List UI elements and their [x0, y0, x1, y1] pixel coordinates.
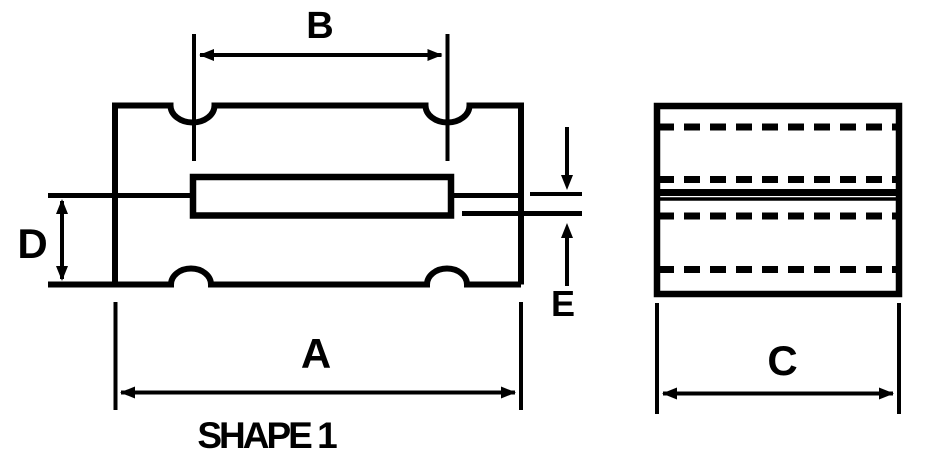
side view dashed line 1 — [658, 124, 896, 131]
side view parting line lower — [660, 197, 896, 201]
dimension A extension line left — [114, 302, 118, 410]
right lower lead wire (also E lower tick) — [462, 211, 582, 216]
dimension C line — [663, 392, 893, 396]
side view body rectangle — [657, 106, 899, 294]
svg-text:B: B — [306, 5, 333, 47]
svg-text:E: E — [551, 283, 575, 324]
right upper lead wire — [451, 193, 521, 198]
side view dashed line 3 — [658, 213, 896, 220]
dimension C left arrowhead — [662, 388, 677, 400]
dimension B line — [200, 53, 442, 57]
dimension D upper arrowhead — [56, 199, 68, 214]
E upper tick — [530, 192, 582, 196]
body bottom edge with notches (extends left as D lower tick) — [48, 269, 521, 285]
dimension B left arrowhead — [199, 49, 214, 61]
dimension A left arrowhead — [120, 387, 135, 399]
dimension A extension line right — [519, 302, 523, 410]
svg-text:A: A — [301, 330, 331, 377]
dimension B right arrowhead — [428, 49, 443, 61]
dimension E lower shaft with up arrowhead — [565, 236, 569, 286]
dimension D lower arrowhead — [56, 266, 68, 281]
svg-text:D: D — [17, 220, 47, 267]
left lead wire (also D upper tick) — [48, 193, 190, 198]
side view parting line upper — [660, 189, 896, 196]
dimension A right arrowhead — [501, 387, 516, 399]
dimension E upper shaft with down arrowhead — [565, 127, 569, 178]
svg-text:C: C — [767, 337, 797, 384]
svg-text:SHAPE 1: SHAPE 1 — [197, 415, 337, 456]
dimension D line with arrows — [60, 201, 64, 279]
dimension A line — [121, 391, 515, 395]
inner slot rectangle — [193, 177, 451, 216]
dimension B extension line right — [446, 34, 450, 161]
dimension C right arrowhead — [879, 388, 894, 400]
body outline (front view, left+top+right edges with top notches) — [115, 106, 521, 285]
side view dashed line 4 — [658, 266, 896, 273]
side view dashed line 2 — [658, 176, 896, 183]
dimension B extension line left — [192, 34, 196, 161]
dimension C extension line left — [655, 303, 659, 414]
dimension C extension line right — [897, 303, 901, 414]
